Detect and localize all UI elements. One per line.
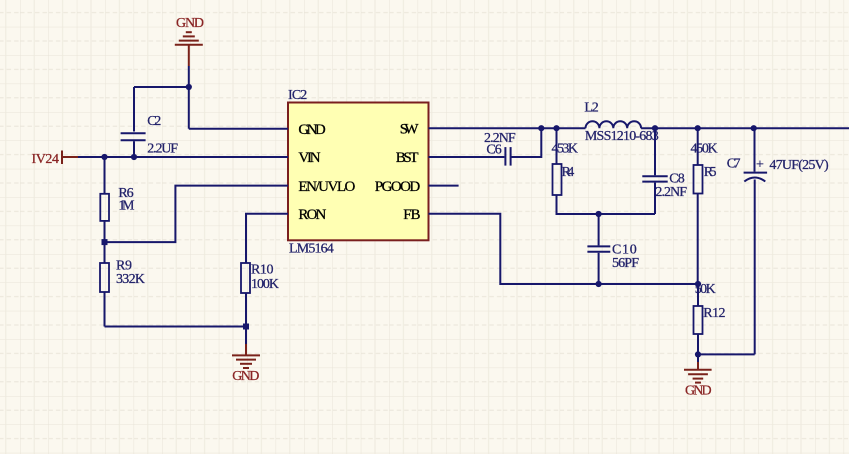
svg-text:GND: GND [685,384,712,399]
svg-text:47UF(25V): 47UF(25V) [769,158,829,173]
svg-text:R12: R12 [703,306,725,321]
svg-text:332K: 332K [116,272,145,287]
svg-text:56PF: 56PF [612,256,639,271]
svg-text:GND: GND [176,16,204,31]
svg-text:R5: R5 [704,165,717,180]
svg-text:IC2: IC2 [288,88,307,103]
svg-text:FB: FB [403,207,420,223]
svg-text:VIN: VIN [298,150,320,166]
svg-text:C2: C2 [147,114,161,129]
svg-text:MSS1210-683: MSS1210-683 [585,129,659,144]
svg-text:1M: 1M [118,199,135,214]
svg-text:GND: GND [232,369,259,384]
svg-text:R10: R10 [251,263,274,278]
svg-text:450K: 450K [691,142,718,157]
svg-text:BST: BST [396,150,419,166]
svg-text:GND: GND [298,122,325,138]
svg-text:C6: C6 [486,143,501,158]
svg-text:+: + [756,158,764,173]
svg-text:C7: C7 [727,157,741,172]
svg-text:R4: R4 [562,165,575,180]
svg-text:PGOOD: PGOOD [375,179,421,195]
svg-text:IV24: IV24 [32,152,60,167]
svg-text:100K: 100K [251,277,279,292]
svg-text:L2: L2 [584,101,598,116]
svg-text:2.2UF: 2.2UF [147,142,178,157]
svg-text:SW: SW [400,122,420,138]
svg-text:2.2NF: 2.2NF [655,185,687,200]
svg-text:LM5164: LM5164 [289,242,334,257]
svg-text:EN/UVLO: EN/UVLO [298,179,355,195]
svg-text:453K: 453K [552,142,579,157]
svg-text:RON: RON [298,207,326,223]
